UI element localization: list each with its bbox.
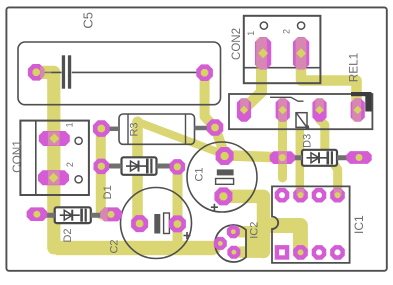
pad CON1.2	[38, 170, 69, 185]
pad CON1.1	[39, 131, 70, 146]
svg-text:2: 2	[65, 162, 75, 167]
wire net9: segment below D3 into IC1 top pad 4	[334, 164, 338, 195]
pad C2.1	[131, 215, 148, 232]
wire net10: stub to IC2.2	[240, 246, 262, 258]
pad C5.2	[196, 64, 213, 81]
IC IC1 outline with pin-1 notch	[272, 186, 350, 263]
svg-text:CON2: CON2	[231, 28, 243, 60]
pad REL1.3	[312, 98, 326, 122]
diode D2 body	[37, 207, 111, 223]
pad IC2.3	[214, 237, 227, 250]
wire net6: CON2.2 over to REL1.4	[301, 64, 357, 103]
pad IC1 pin4	[330, 245, 345, 260]
pad IC1 pin7	[293, 188, 308, 203]
svg-text:REL1: REL1	[346, 53, 360, 83]
wire net1: C5.1 - CON1.1 - CON1.2 - IC2.3 bottom bus	[39, 72, 215, 247]
pad drill holes	[33, 48, 363, 255]
svg-text:1: 1	[246, 31, 256, 36]
wire net10: arm into IC1 to bottom pad 2	[264, 226, 301, 252]
svg-text:C1: C1	[194, 167, 206, 181]
wire net7: REL1.2 down to D3.1	[278, 112, 287, 178]
wire net2: C1.+ diagonal under R3	[138, 122, 225, 155]
svg-text:IC1: IC1	[352, 215, 366, 234]
pad R3.2	[207, 119, 224, 136]
pad IC2.2	[227, 246, 240, 259]
transistor IC2 outline	[215, 225, 246, 262]
connector CON1 outline	[20, 121, 89, 195]
wire net8: REL1 coil to IC1 pin (under D3)	[296, 127, 305, 195]
wire net2: vertical down to C2.1 (under D1)	[132, 122, 143, 224]
svg-text:2: 2	[282, 29, 292, 34]
wire net4: D1.2 down to C2.2 and bottom bus	[173, 167, 183, 246]
wire net9: REL1.3 down (upper segment)	[320, 112, 325, 150]
pad CON2.1	[255, 37, 271, 70]
pad REL1.4	[351, 98, 365, 122]
diode D3 body	[282, 150, 359, 166]
capacitor C1 outline	[187, 142, 257, 212]
diode D1 body	[101, 157, 177, 175]
pad IC1 pin8	[275, 188, 290, 203]
relay REL1 outline	[229, 92, 372, 129]
svg-text:C5: C5	[81, 12, 96, 29]
pad IC1 pin2	[293, 245, 308, 260]
capacitor C5 outline	[18, 42, 221, 105]
pad IC1 pin1 (square)	[275, 245, 290, 260]
pad IC1 pin5	[330, 188, 345, 203]
capacitor C2 outline	[121, 188, 192, 259]
wire net10: stub to IC2.1	[240, 226, 262, 238]
pad C5.1	[28, 64, 45, 81]
pad D1.2	[170, 159, 186, 175]
pad IC1 pin6	[312, 188, 327, 203]
pad D3.1	[270, 151, 295, 164]
pad CON2.2	[293, 37, 309, 70]
svg-text:D2: D2	[62, 228, 74, 242]
svg-text:CON1: CON1	[10, 140, 24, 173]
svg-text:IC2: IC2	[248, 222, 260, 239]
wire net2: C5.2 down to R3.2 to C1.+	[205, 73, 225, 155]
pad D3.2	[346, 151, 371, 164]
pad IC1 pin3	[312, 245, 327, 260]
resistor R3 outline	[107, 114, 209, 144]
pad REL1.1	[237, 98, 251, 122]
wire net1: bottom bus widening	[56, 241, 215, 255]
pad R3.1	[93, 120, 110, 137]
pad D1.1	[94, 159, 110, 175]
wire net5: CON2.1 to REL1.1	[248, 64, 262, 106]
svg-text:D3: D3	[301, 134, 313, 148]
pad IC2.1	[227, 225, 240, 238]
wire net10: C1.- over and down beside IC1	[224, 196, 264, 251]
connector CON2 outline	[244, 16, 321, 83]
svg-text:C2: C2	[109, 239, 121, 253]
wire net10: fill between IC2 stubs	[245, 228, 259, 256]
wire blend stripes over pads	[48, 132, 60, 146]
svg-text:D1: D1	[102, 185, 114, 199]
pad D2.2	[100, 207, 122, 221]
pad C1.+	[216, 147, 234, 165]
pad REL1.2	[276, 98, 290, 122]
pad C1.-	[214, 187, 232, 205]
wire net3: R3.1 - D1.1 - D2.2	[96, 129, 106, 215]
svg-text:R3: R3	[129, 122, 141, 136]
pad C2.2	[169, 215, 186, 232]
svg-text:1: 1	[65, 122, 75, 127]
pad D2.1	[27, 207, 47, 221]
wire net2: C1.+ to D3.1	[225, 155, 282, 157]
